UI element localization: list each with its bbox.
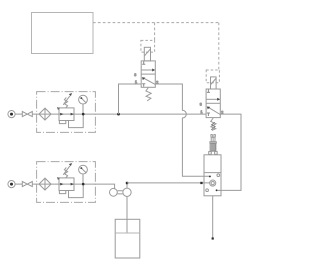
- regulator flow arrowheads: [60, 113, 63, 116]
- spray valve base nuts: [209, 152, 212, 155]
- wire valve V2 port 2 to spray valve: [218, 114, 241, 190]
- spray valve stem: [211, 137, 215, 141]
- spray valve outlet line: [212, 196, 214, 238]
- controller box: [32, 13, 94, 54]
- pilot line from controller (dashed): [93, 22, 219, 24]
- regulator relief U: [59, 121, 65, 124]
- pressure gauge G: [79, 95, 88, 104]
- FRL enclosure (dash-dot): [37, 92, 96, 133]
- fluid line node (square): [200, 182, 202, 184]
- tank: [115, 219, 140, 258]
- junction dot main line to valve V1: [117, 113, 120, 116]
- wire source to shutoff valve: [15, 113, 22, 115]
- spray valve pilot port dot: [209, 175, 211, 177]
- gauge stem: [82, 104, 84, 114]
- valve V1 pilot stem: [144, 47, 150, 61]
- svg-text:3: 3: [134, 73, 136, 77]
- valve V2 flow arrow 1-2 (top box): [207, 98, 221, 101]
- pump right circle: [123, 188, 131, 196]
- svg-text:1: 1: [201, 110, 203, 114]
- regulator adjustment arrow: [63, 93, 72, 105]
- shutoff valve (bowtie): [22, 112, 27, 117]
- spray valve body: [204, 155, 221, 196]
- pump left circle: [110, 188, 118, 196]
- valve V1 flow arrow 1-2 (top box): [142, 69, 156, 72]
- pump outlet node (square): [126, 182, 128, 184]
- regulator spring: [64, 98, 67, 108]
- valve V1 exhaust diagonal 2-3 (bottom box): [142, 77, 155, 84]
- pump suction stub: [126, 196, 128, 233]
- valve V2 pilot dashed box: [206, 70, 219, 83]
- spray valve small circle upper-right: [217, 174, 220, 177]
- spray valve fluid inlet circle: [210, 180, 216, 186]
- pilot branch to valve V2: [218, 23, 220, 70]
- regulator vent arrowhead: [57, 107, 60, 110]
- wire valve V1 port 1: [119, 84, 142, 114]
- FRL2 output wire to pump: [95, 184, 114, 189]
- FRL unit 1: [8, 92, 96, 133]
- wire through FRL: [32, 113, 59, 115]
- svg-text:1: 1: [135, 80, 137, 84]
- svg-text:3: 3: [200, 103, 202, 107]
- nozzle tip (square): [212, 237, 214, 239]
- fluid line pump to spray valve: [127, 182, 210, 184]
- regulator feedback pilot loop: [69, 114, 84, 128]
- valve V1 blocked port 3 (top box): [142, 61, 145, 64]
- main line FRL1 output to valve V2 port 1: [95, 113, 206, 115]
- pilot branch to valve V1: [154, 23, 156, 41]
- spray valve knob prongs: [211, 135, 215, 138]
- tank liquid level: [115, 232, 140, 234]
- pump outlet stub: [126, 183, 128, 188]
- valve V1 body: [141, 61, 155, 87]
- pump coupling lines: [118, 191, 123, 194]
- junction dot at gauge tap: [82, 113, 85, 116]
- valve V1 blocked port 1 (bottom box): [142, 84, 145, 87]
- spray valve flange: [210, 142, 216, 144]
- regulator R body: [59, 108, 74, 121]
- air source circle: [8, 111, 15, 118]
- wire valve V1 port 2 with hop over main line: [155, 84, 209, 176]
- spray valve knurled knob: [210, 143, 216, 151]
- valve V2 blocked port 1 (bottom box): [207, 113, 210, 116]
- spray valve cylinder port dot: [216, 189, 218, 191]
- valve V1 pilot dashed box: [141, 40, 155, 52]
- spray valve small circle lower-left: [206, 189, 209, 192]
- FRL unit 2 (same as unit 1, lower): [8, 162, 96, 203]
- valve V2 return spring: [211, 118, 216, 130]
- valve V2 exhaust diagonal 2-3 (bottom box): [207, 107, 220, 115]
- spray valve squiggle: [211, 122, 215, 129]
- valve V1 return spring: [146, 88, 151, 101]
- valve V2 blocked port 3 (top box): [207, 89, 210, 92]
- filter F: [39, 108, 51, 120]
- valve V2 body: [206, 89, 220, 118]
- valve V2 pilot stem: [211, 77, 217, 89]
